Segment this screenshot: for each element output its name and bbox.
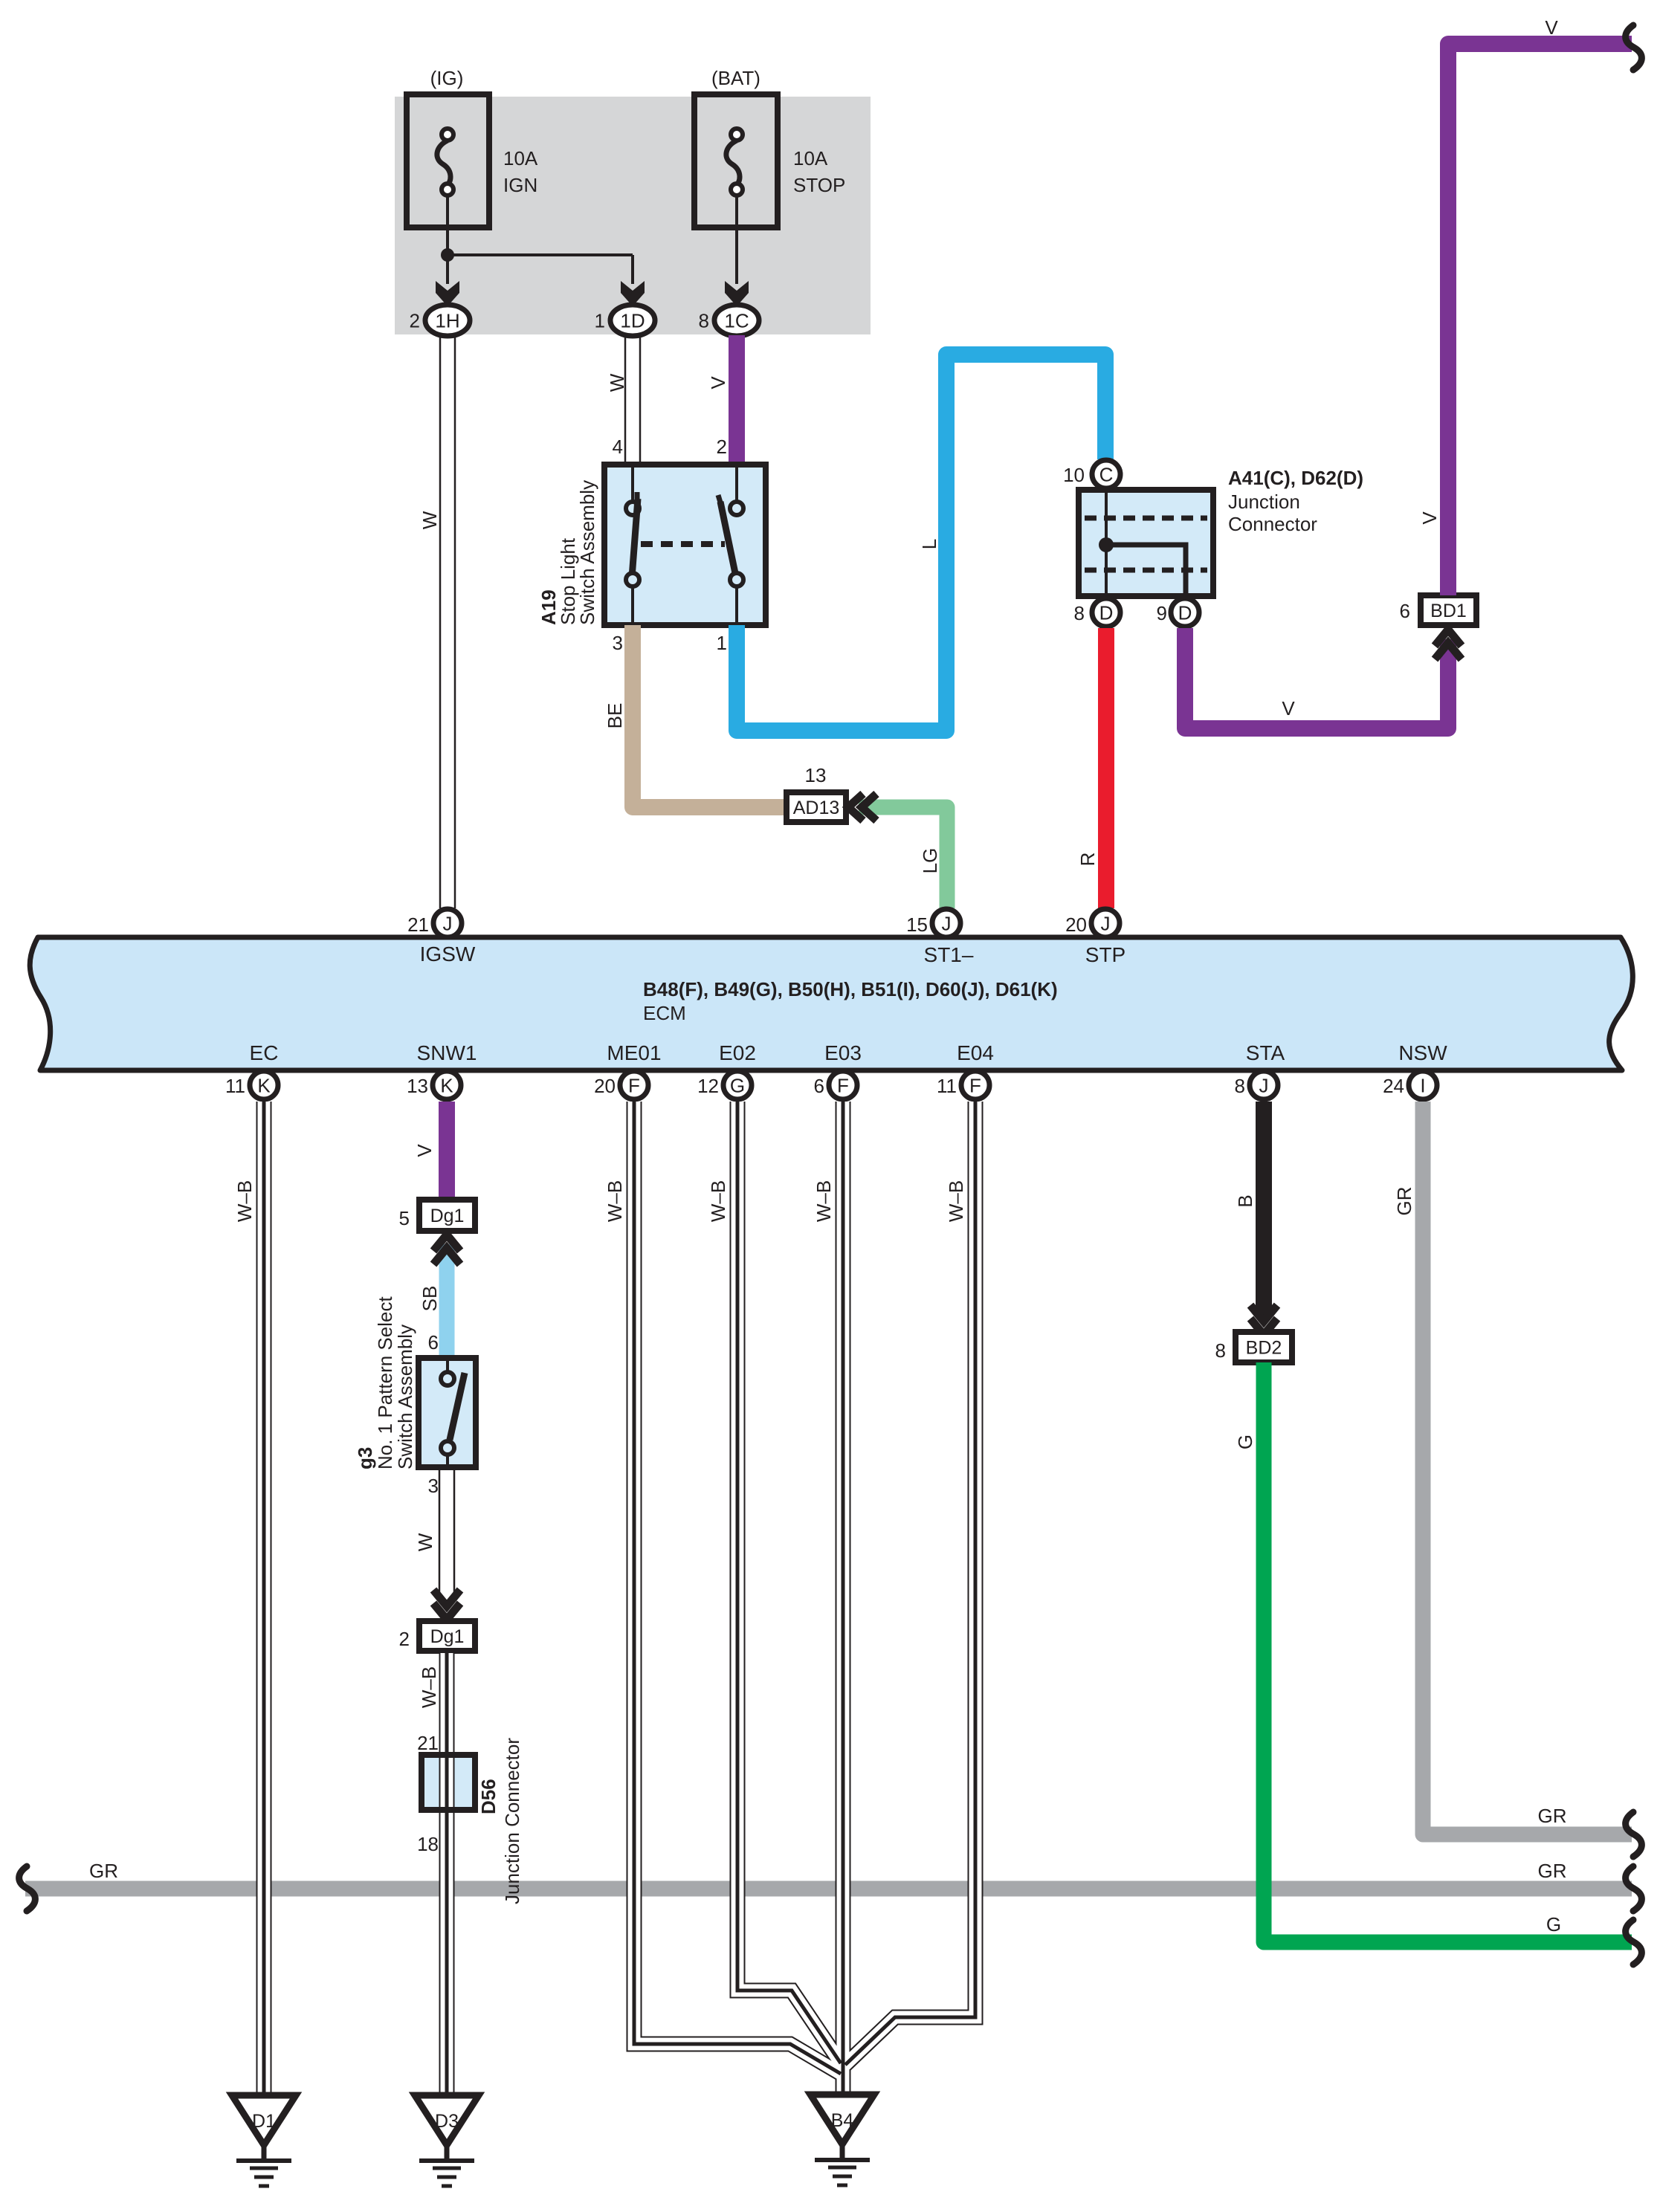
svg-text:1D: 1D [620, 310, 645, 332]
svg-text:W–B: W–B [418, 1666, 440, 1708]
svg-text:9: 9 [1157, 602, 1167, 624]
svg-text:3: 3 [428, 1475, 439, 1497]
ECM [30, 937, 1632, 1070]
svg-text:No. 1 Pattern Select: No. 1 Pattern Select [374, 1296, 396, 1469]
svg-text:10A: 10A [503, 147, 538, 169]
svg-text:Junction Connector: Junction Connector [501, 1738, 523, 1904]
svg-text:V: V [1282, 697, 1295, 719]
wire B from ECM STA to BD2 [1256, 1102, 1272, 1316]
svg-text:G: G [1546, 1913, 1561, 1935]
svg-text:2: 2 [399, 1628, 410, 1650]
break mark GR bus right [1626, 1866, 1642, 1911]
svg-text:Dg1: Dg1 [430, 1626, 465, 1647]
svg-text:E04: E04 [957, 1041, 994, 1064]
svg-text:13: 13 [407, 1075, 428, 1097]
svg-text:24: 24 [1383, 1075, 1404, 1097]
svg-text:1H: 1H [435, 310, 459, 332]
chevrons below Dg1 [433, 1235, 460, 1251]
svg-text:20: 20 [594, 1075, 616, 1097]
svg-text:D56: D56 [477, 1779, 500, 1814]
junction connector D56 [422, 1755, 475, 1810]
svg-text:G: G [1234, 1435, 1256, 1449]
ECM pin 11 K EC [250, 1071, 278, 1099]
arrow into 1H [436, 281, 459, 306]
wire SB to pattern select switch [439, 1244, 455, 1358]
svg-text:21: 21 [417, 1732, 439, 1754]
chevrons BD1 [1435, 630, 1462, 646]
svg-text:NSW: NSW [1398, 1041, 1447, 1064]
ECM pin 20 J STP [1091, 909, 1120, 937]
wire W from g3 pin 3 to Dg1 pin 2 [439, 1467, 441, 1598]
junction connector pin 8 D [1092, 598, 1120, 627]
svg-text:8: 8 [1215, 1339, 1226, 1362]
wire W from 1H to ECM IGSW [439, 336, 442, 908]
connector AD13 pin 13 [787, 792, 846, 822]
svg-text:B: B [1234, 1194, 1256, 1207]
svg-text:V: V [707, 376, 729, 389]
svg-text:R: R [1076, 853, 1099, 867]
svg-text:W–B: W–B [707, 1180, 729, 1222]
stop light switch assembly A19 [604, 465, 766, 625]
wire V from top break to BD1 [1448, 44, 1632, 595]
A19 right switch [730, 502, 743, 515]
svg-text:F: F [628, 1075, 640, 1097]
arrow into 1D [621, 281, 645, 306]
junction dot [441, 248, 454, 262]
junction connector pin 10 C [1092, 460, 1120, 488]
svg-text:GR: GR [89, 1860, 118, 1882]
chevrons AD13 [848, 794, 863, 821]
svg-text:GR: GR [1538, 1860, 1567, 1882]
svg-text:6: 6 [814, 1075, 824, 1097]
wire L from A19 pin 1 to junction connector C [737, 355, 1105, 731]
break mark GR right [1626, 1812, 1642, 1857]
svg-text:L: L [918, 539, 940, 549]
wire W-B from ECM ME01 to ground B4 [634, 1102, 841, 2074]
ground D3 [415, 2095, 479, 2145]
ECM pin 11 F E04 [961, 1071, 989, 1099]
svg-text:Switch Assembly: Switch Assembly [576, 480, 598, 625]
svg-text:I: I [1420, 1075, 1425, 1097]
svg-text:B48(F), B49(G), B50(H), B51(I): B48(F), B49(G), B50(H), B51(I), D60(J), … [643, 978, 1058, 1000]
svg-text:5: 5 [399, 1207, 410, 1229]
ground B4 [810, 2095, 874, 2144]
svg-text:J: J [1259, 1075, 1269, 1097]
svg-text:2: 2 [717, 436, 727, 458]
svg-text:ME01: ME01 [607, 1041, 661, 1064]
svg-text:LG: LG [919, 848, 941, 874]
ECM pin 8 J STA [1250, 1071, 1278, 1099]
connector BD2 pin 8 [1236, 1332, 1292, 1362]
svg-text:W: W [414, 1533, 436, 1551]
svg-text:(IG): (IG) [430, 67, 464, 89]
wire GR bus [25, 1881, 1632, 1897]
svg-text:8: 8 [699, 310, 709, 332]
svg-text:E03: E03 [824, 1041, 862, 1064]
svg-text:J: J [443, 913, 453, 935]
svg-text:W–B: W–B [945, 1180, 967, 1222]
fuse 10A IGN [407, 94, 489, 227]
svg-text:GR: GR [1393, 1187, 1415, 1216]
svg-text:Connector: Connector [1228, 513, 1317, 535]
junction connector A41(C) D62(D) [1079, 490, 1213, 596]
svg-text:E02: E02 [719, 1041, 756, 1064]
break mark G right [1626, 1920, 1642, 1964]
svg-text:W: W [419, 511, 441, 529]
pattern select switch assembly g3 [419, 1358, 476, 1467]
svg-text:D1: D1 [252, 2111, 276, 2132]
connector 1D pin 1 [610, 305, 655, 336]
svg-text:18: 18 [417, 1833, 439, 1855]
wire W from 1D to A19 pin 4 [624, 336, 627, 465]
wire W-B from ECM EC to ground D1 [256, 1102, 272, 2098]
svg-text:AD13: AD13 [793, 798, 840, 818]
svg-text:V: V [1545, 16, 1558, 39]
svg-text:K: K [257, 1075, 271, 1097]
svg-text:C: C [1099, 464, 1114, 486]
svg-text:g3: g3 [354, 1447, 376, 1469]
ECM pin 24 I NSW [1409, 1071, 1437, 1099]
wire R from junction connector D8 to ECM STP [1098, 628, 1114, 908]
wire fuse STOP to 1C [735, 195, 738, 284]
svg-text:D: D [1178, 602, 1192, 624]
ECM pin 13 K SNW1 [433, 1071, 461, 1099]
svg-text:W–B: W–B [233, 1180, 256, 1222]
svg-text:IGN: IGN [503, 174, 537, 196]
svg-text:J: J [1101, 913, 1111, 935]
ECM pin 12 G E02 [723, 1071, 752, 1099]
svg-text:F: F [969, 1075, 981, 1097]
svg-text:BD2: BD2 [1246, 1338, 1282, 1359]
A19 dashed coupling [641, 541, 725, 547]
svg-text:SB: SB [419, 1286, 441, 1312]
ECM pin 20 F ME01 [620, 1071, 648, 1099]
chevrons above Dg1 2 [433, 1603, 460, 1620]
svg-text:13: 13 [805, 764, 827, 786]
svg-text:W–B: W–B [604, 1180, 626, 1222]
svg-text:11: 11 [225, 1075, 245, 1097]
wire BE from A19 pin 3 to AD13 [633, 625, 787, 807]
svg-text:V: V [1418, 511, 1441, 525]
svg-text:6: 6 [428, 1331, 439, 1354]
svg-text:1: 1 [595, 310, 605, 332]
svg-text:21: 21 [407, 913, 429, 936]
wire G from BD2 to right break [1264, 1362, 1632, 1942]
connector 1H pin 2 [425, 305, 470, 336]
svg-text:STA: STA [1246, 1041, 1285, 1064]
connector Dg1 pin 5 [419, 1200, 475, 1231]
wire LG from AD13 to ECM ST1- [859, 807, 947, 908]
junction connector pin 9 D [1171, 598, 1199, 627]
svg-text:W: W [606, 373, 628, 392]
svg-text:Dg1: Dg1 [430, 1206, 465, 1226]
svg-text:SNW1: SNW1 [417, 1041, 477, 1064]
svg-text:STOP: STOP [793, 174, 845, 196]
svg-text:(BAT): (BAT) [711, 67, 760, 89]
svg-text:8: 8 [1074, 602, 1085, 624]
svg-text:Junction: Junction [1228, 491, 1300, 513]
wire V from 1C to A19 pin 2 [729, 335, 745, 465]
svg-text:D: D [1099, 602, 1114, 624]
svg-text:A41(C), D62(D): A41(C), D62(D) [1228, 467, 1363, 489]
break mark GR bus left [19, 1866, 36, 1911]
svg-text:G: G [730, 1075, 745, 1097]
wire V from junction connector D9 to BD1 [1185, 628, 1448, 728]
svg-text:B4: B4 [831, 2110, 854, 2131]
svg-text:IGSW: IGSW [420, 942, 476, 966]
svg-text:STP: STP [1085, 943, 1125, 966]
svg-text:10: 10 [1063, 464, 1085, 486]
svg-text:GR: GR [1538, 1805, 1567, 1827]
svg-text:3: 3 [613, 632, 623, 654]
wire V from ECM SNW1 to Dg1 [439, 1102, 455, 1200]
A19 left switch [626, 502, 639, 515]
svg-text:8: 8 [1235, 1075, 1245, 1097]
wire GR from ECM NSW to right break [1423, 1102, 1632, 1834]
svg-text:2: 2 [410, 310, 420, 332]
svg-text:W–B: W–B [813, 1180, 835, 1222]
ECM pin 15 J ST1- [932, 909, 960, 937]
svg-text:6: 6 [1400, 600, 1410, 622]
arrow into 1C [725, 281, 749, 306]
svg-text:BE: BE [604, 703, 626, 729]
svg-text:11: 11 [937, 1075, 957, 1097]
svg-text:EC: EC [250, 1041, 279, 1064]
svg-text:10A: 10A [793, 147, 828, 169]
svg-text:Switch Assembly: Switch Assembly [394, 1325, 416, 1469]
junction dot inside connector [1099, 537, 1114, 552]
ECM pin 21 J IGSW [433, 909, 462, 937]
svg-text:20: 20 [1065, 913, 1087, 936]
connector Dg1 pin 2 [419, 1621, 475, 1651]
wire fuse IGN to 1H and 1D [446, 195, 449, 284]
ECM pin 6 F E03 [829, 1071, 857, 1099]
connector 1C pin 8 [714, 305, 759, 336]
svg-text:K: K [440, 1075, 453, 1097]
svg-text:BD1: BD1 [1430, 601, 1467, 621]
svg-text:ECM: ECM [643, 1002, 686, 1024]
svg-text:1: 1 [717, 632, 727, 654]
A19 pin 2 stub [735, 468, 738, 500]
svg-text:F: F [837, 1075, 849, 1097]
svg-text:V: V [413, 1144, 436, 1157]
arrow into BD2 [1250, 1319, 1277, 1335]
fuse 10A STOP [694, 94, 778, 227]
connector BD1 pin 6 [1421, 595, 1476, 625]
A19 pin 4 stub [631, 468, 634, 500]
svg-text:J: J [942, 913, 952, 935]
svg-text:1C: 1C [724, 310, 749, 332]
svg-text:15: 15 [906, 913, 928, 936]
power source box [395, 97, 871, 334]
svg-text:4: 4 [613, 436, 623, 458]
svg-text:12: 12 [697, 1075, 719, 1097]
break mark top right [1626, 25, 1642, 70]
svg-text:D3: D3 [435, 2111, 459, 2132]
svg-text:ST1–: ST1– [924, 943, 974, 966]
ground D1 [232, 2095, 296, 2145]
